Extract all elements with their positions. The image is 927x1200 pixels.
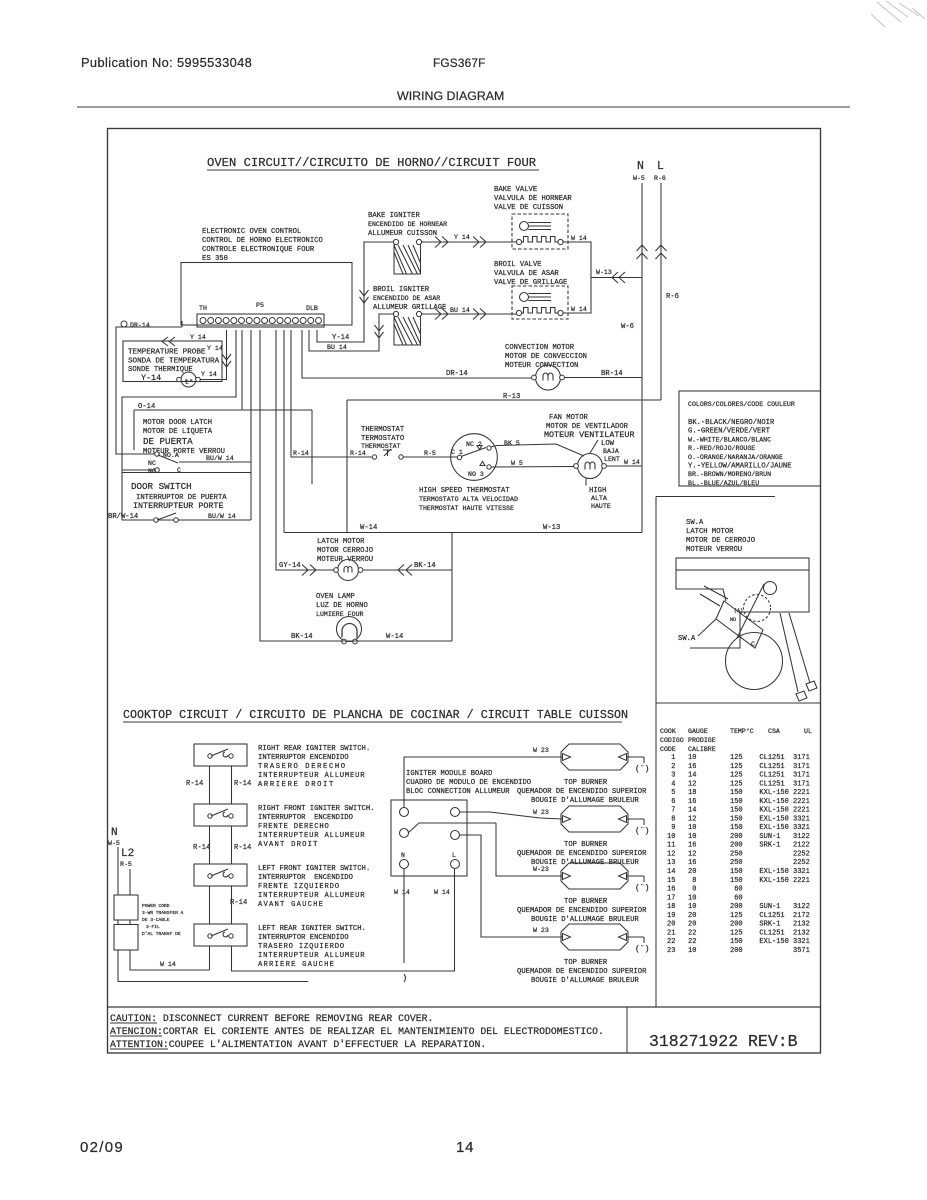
svg-text:W 14: W 14 (571, 306, 587, 313)
wire label O-14 (138, 403, 155, 411)
wire stub at connector left (181, 321, 183, 327)
wire label GY-14 (279, 562, 301, 570)
page header model number (433, 56, 486, 70)
door switch box right edge (250, 462, 252, 520)
cooktop wire table header (660, 727, 812, 753)
convection motor B1 (532, 365, 565, 390)
electronic oven control U1 body (181, 263, 352, 326)
svg-text:W 23: W 23 (533, 809, 549, 816)
svg-text:DR-14: DR-14 (446, 370, 468, 378)
bake valve label text (494, 186, 572, 212)
wire label W 14 module b (434, 889, 450, 896)
svg-text:18 10 200 SUN-1: 18 10 200 SUN-1 3122 (667, 903, 810, 911)
latch assembly cam follower top (737, 582, 777, 639)
electronic oven control U1 label text (202, 228, 323, 263)
svg-text:NC 2: NC 2 (466, 441, 482, 448)
svg-text:(¨): (¨) (635, 945, 649, 954)
svg-text:C 1: C 1 (451, 449, 463, 456)
wire label W 5 (511, 460, 523, 467)
svg-text:RIGHT FRONT IGNITER SWITCH.: RIGHT FRONT IGNITER SWITCH. (258, 805, 374, 813)
igniter module board label text (406, 770, 531, 796)
svg-text:R-5: R-5 (120, 861, 132, 868)
wire label W-13 bottom right (543, 524, 560, 532)
wire NO to fan motor (492, 466, 575, 469)
svg-text:21 22 125 CL1251: 21 22 125 CL1251 2132 (667, 929, 810, 937)
svg-text:P5: P5 (256, 302, 264, 309)
svg-text:ALLUMEUR GRILLAGE: ALLUMEUR GRILLAGE (373, 304, 446, 312)
svg-text:t°: t° (185, 378, 194, 387)
latch motor assembly enclosure left edge (655, 497, 657, 1008)
wire label BU 14 broil (450, 307, 470, 314)
wire N drop to power cord (117, 847, 119, 895)
bake valve L1 (512, 214, 568, 249)
svg-text:11 16 200 SRK-1: 11 16 200 SRK-1 2122 (667, 842, 810, 850)
svg-text:CAUTION: DISCONNECT CURRENT BE: CAUTION: DISCONNECT CURRENT BEFORE REMOV… (110, 1013, 433, 1024)
svg-text:BK.-BLACK/NEGRO/NOIR: BK.-BLACK/NEGRO/NOIR (688, 419, 775, 427)
svg-text:TEMPERATURE PROBE: TEMPERATURE PROBE (128, 349, 206, 357)
svg-text:ARRIERE GAUCHE: ARRIERE GAUCHE (258, 961, 335, 969)
svg-text:W 14: W 14 (571, 235, 587, 242)
wire module to top burner 4 (460, 835, 564, 937)
svg-text:BLOC CONNECTION ALLUMEUR: BLOC CONNECTION ALLUMEUR (406, 788, 510, 796)
svg-text:R-14: R-14 (193, 844, 210, 852)
svg-text:14: 14 (456, 1139, 474, 1156)
oven circuit section title (207, 156, 539, 170)
top burner 1 label W 23 (533, 747, 549, 754)
left rear igniter switch text (258, 925, 366, 969)
caution text spanish (110, 1026, 604, 1037)
svg-text:GAUGE: GAUGE (688, 728, 708, 735)
wire label R-13 (503, 393, 520, 401)
svg-text:6 16 150 KXL-150 2: 6 16 150 KXL-150 2221 (667, 798, 810, 806)
top burner 2 text (517, 841, 647, 867)
wire convection motor to N bus (565, 377, 643, 379)
top burner 1 (561, 744, 649, 774)
wire label R-14 a (293, 450, 309, 457)
wire switch column segment a (210, 766, 232, 804)
svg-text:23 10 200: 23 10 200 3571 (667, 947, 810, 955)
top burner 4 label W 23 (533, 927, 549, 934)
svg-text:W.-WHITE/BLANCO/BLANC: W.-WHITE/BLANCO/BLANC (688, 436, 771, 443)
svg-text:ATTENTION:COUPEE L'ALIMENTATIO: ATTENTION:COUPEE L'ALIMENTATION AVANT D'… (110, 1039, 486, 1050)
svg-text:W-14: W-14 (386, 633, 403, 641)
svg-text:VALVULA DE HORNEAR: VALVULA DE HORNEAR (494, 195, 572, 203)
svg-text:N: N (637, 160, 644, 173)
svg-text:318271922 REV:B: 318271922 REV:B (649, 1032, 798, 1051)
svg-text:MOTEUR VERROU: MOTEUR VERROU (686, 546, 742, 554)
svg-text:HIGH: HIGH (589, 487, 606, 495)
wire label BK-14 (414, 562, 436, 570)
svg-text:ARRIERE DROIT: ARRIERE DROIT (258, 781, 335, 789)
svg-text:BR.-BROWN/MORENO/BRUN: BR.-BROWN/MORENO/BRUN (688, 471, 771, 478)
svg-text:INTERRUPTOR ENCENDIDO: INTERRUPTOR ENCENDIDO (258, 814, 353, 822)
svg-text:17 10 60: 17 10 60 (667, 894, 743, 902)
svg-text:ELECTRONIC OVEN CONTROL: ELECTRONIC OVEN CONTROL (202, 228, 301, 236)
svg-text:THERMOSTAT HAUTE VITESSE: THERMOSTAT HAUTE VITESSE (419, 505, 514, 512)
svg-text:FRENTE IZQUIERDO: FRENTE IZQUIERDO (258, 883, 340, 891)
latch motor assembly enclosure bottom edge (656, 702, 821, 704)
svg-text:(¨): (¨) (635, 884, 649, 893)
latch assembly switch body rotated (716, 601, 763, 648)
wire pin to convection motor DR-14 (302, 330, 532, 378)
wire NC to fan motor low (491, 444, 584, 456)
svg-text:IGNITER MODULE BOARD: IGNITER MODULE BOARD (406, 770, 492, 778)
wire pin to broil igniter BU-14 (309, 314, 393, 351)
svg-text:Y-14: Y-14 (332, 334, 349, 342)
svg-text:W-13: W-13 (543, 524, 560, 532)
svg-text:ALLUMEUR CUISSON: ALLUMEUR CUISSON (368, 230, 437, 238)
latch motor label text (317, 538, 373, 564)
fan thermostat box top edge with L bus turn (347, 399, 661, 401)
wire label Y 14 near down line (207, 345, 223, 352)
svg-text:R-14: R-14 (230, 899, 247, 907)
latch assembly leg B (806, 681, 817, 691)
latch assembly SW.A leader (678, 586, 728, 643)
wire valves to N bus (591, 277, 642, 279)
svg-text:TEMP°C: TEMP°C (730, 727, 754, 735)
wire label R-6 on L bus (666, 293, 679, 301)
color legend entries (688, 419, 792, 487)
fan motor B2 (574, 454, 607, 479)
wire from latch switch common (179, 461, 251, 463)
connector chevrons on L bus (656, 245, 667, 259)
svg-text:MOTEUR VENTILATEUR: MOTEUR VENTILATEUR (544, 430, 634, 440)
svg-text:COOK: COOK (660, 728, 676, 735)
svg-text:N: N (401, 852, 405, 859)
svg-text:SW.A: SW.A (686, 519, 704, 527)
latch switch SW terminals (155, 452, 178, 473)
connector strip P5 on U1 (197, 314, 324, 327)
svg-text:L2: L2 (121, 848, 134, 860)
svg-text:5 18 150 KXL-150 2: 5 18 150 KXL-150 2221 (667, 789, 810, 797)
svg-text:BU 14: BU 14 (327, 344, 347, 351)
svg-text:LUMIERE FOUR: LUMIERE FOUR (316, 611, 364, 618)
power cord plug block upper (114, 895, 138, 920)
svg-text:POWER CORD: POWER CORD (142, 903, 170, 909)
svg-text:TRASERO IZQUIERDO: TRASERO IZQUIERDO (258, 943, 345, 951)
svg-text:INTERRUPTEUR PORTE: INTERRUPTEUR PORTE (133, 501, 223, 511)
svg-text:BL.-BLUE/AZUL/BLEU: BL.-BLUE/AZUL/BLEU (688, 480, 759, 487)
wire pin to thermostat R-14 (291, 330, 372, 457)
wire bake igniter to bake valve (422, 241, 517, 243)
node L supply label (654, 160, 666, 182)
svg-text:L: L (657, 160, 664, 173)
svg-text:W 23: W 23 (533, 747, 549, 754)
svg-text:MOTOR DOOR LATCH: MOTOR DOOR LATCH (143, 419, 212, 427)
power cord plug block lower (114, 925, 138, 951)
svg-text:TOP BURNER: TOP BURNER (564, 779, 608, 787)
right rear igniter switch S1 (194, 744, 247, 766)
wire L bus (660, 183, 662, 400)
motor door latch text (143, 419, 225, 456)
svg-text:LUZ DE HORNO: LUZ DE HORNO (316, 602, 368, 610)
part number revision block (649, 1032, 798, 1051)
top burner 2 (561, 806, 649, 836)
wire label W 14 broil valve (571, 306, 587, 313)
svg-text:CODIGO: CODIGO (660, 737, 684, 744)
svg-text:CALIBRE: CALIBRE (688, 746, 716, 753)
fan motor label text (544, 414, 634, 440)
wire label W 14 bake valve (571, 235, 587, 242)
high speed thermostat S2 body (451, 434, 498, 481)
svg-text:G.-GREEN/VERDE/VERT: G.-GREEN/VERDE/VERT (688, 428, 771, 436)
left front igniter switch text (258, 865, 370, 909)
svg-text:(¨): (¨) (635, 827, 649, 836)
header underline (77, 106, 850, 108)
svg-text:OVEN LAMP: OVEN LAMP (316, 593, 355, 601)
latch assembly mounting bar (676, 558, 809, 570)
svg-text:NO: NO (148, 468, 156, 475)
connector chevrons on probe box top edge (162, 337, 175, 346)
pin label DLB (306, 305, 318, 312)
svg-text:AVANT DROIT: AVANT DROIT (258, 841, 319, 849)
svg-text:ENCENDIDO DE HORNEAR: ENCENDIDO DE HORNEAR (368, 221, 447, 228)
latch motor assembly label text (686, 519, 755, 554)
wire label W 14 fan (624, 459, 640, 466)
wire label BU 14 (327, 344, 347, 351)
svg-text:INTERRUPTEUR ALLUMEUR: INTERRUPTEUR ALLUMEUR (258, 772, 365, 780)
footer date (80, 1139, 124, 1156)
svg-text:14 20 150 EXL-150: 14 20 150 EXL-150 3321 (667, 868, 810, 876)
wire pin to latch motor GY-14 (276, 330, 334, 570)
svg-text:W 14: W 14 (624, 459, 640, 466)
svg-text:BROIL VALVE: BROIL VALVE (494, 261, 541, 269)
wire label R-14 pair b (193, 844, 251, 852)
svg-text:CSA: CSA (768, 728, 780, 735)
wire label Y 14 above probe box (190, 334, 206, 341)
wire label R-14 pair a (186, 780, 251, 788)
wire label W-13 valves (596, 269, 612, 276)
wire label W-6 on N bus (621, 323, 634, 331)
svg-text:BK-14: BK-14 (291, 633, 313, 641)
svg-text:GY-14: GY-14 (279, 562, 301, 570)
temperature probe RT1 symbol (177, 372, 201, 387)
connector chevrons on broil igniter drop (375, 325, 384, 338)
wire label Y 14 bake (454, 234, 470, 241)
thermostat TS1 switch (372, 449, 403, 459)
svg-text:THERMOSTAT: THERMOSTAT (361, 443, 401, 450)
svg-text:3 14 125 CL1251 3: 3 14 125 CL1251 3171 (667, 772, 810, 780)
wire latch motor to right drop BK-14 (363, 569, 452, 571)
svg-text:R-14: R-14 (186, 780, 203, 788)
svg-text:Y.-YELLOW/AMARILLO/JAUNE: Y.-YELLOW/AMARILLO/JAUNE (688, 463, 792, 471)
pin label P5 (256, 302, 264, 309)
svg-text:AVANT GAUCHE: AVANT GAUCHE (258, 901, 324, 909)
top burner 4 (561, 924, 649, 954)
svg-text:ALTA: ALTA (591, 495, 607, 502)
wire switch column to feed line (209, 946, 211, 970)
svg-text:CONTROL DE HORNO ELECTRONICO: CONTROL DE HORNO ELECTRONICO (202, 237, 323, 245)
wire label W 14 module a (394, 889, 410, 896)
svg-text:12 12 250: 12 12 250 2252 (667, 851, 810, 859)
power cord connector stubs (118, 920, 130, 925)
svg-text:TOP BURNER: TOP BURNER (564, 959, 608, 967)
svg-text:BAKE VALVE: BAKE VALVE (494, 186, 537, 194)
wire pin drop to latch switch (250, 330, 252, 462)
wire pin to bake igniter Y-14 (317, 242, 393, 342)
svg-text:BROIL IGNITER: BROIL IGNITER (373, 286, 430, 294)
fan thermostat box left edge (346, 400, 348, 533)
svg-text:L: L (452, 852, 456, 859)
top burner 2 label W 23 (533, 809, 549, 816)
wire DR-14 to connector (116, 327, 182, 454)
svg-text:R-6: R-6 (654, 175, 666, 182)
svg-text:R-14: R-14 (350, 450, 366, 457)
svg-text:LATCH MOTOR: LATCH MOTOR (686, 528, 734, 536)
wire hop module N pin (404, 974, 406, 982)
svg-text:8 12 150 EXL-150 3: 8 12 150 EXL-150 3321 (667, 815, 810, 823)
color legend title (688, 401, 795, 408)
wire probe to pin Y-14 (200, 330, 227, 380)
wire L2 drop to power cord (129, 869, 131, 895)
svg-text:BU 14: BU 14 (450, 307, 470, 314)
svg-text:NO.A: NO.A (163, 452, 179, 459)
wire label R-5 (424, 450, 436, 457)
cooktop wire table rows (667, 754, 810, 955)
pin label TH (199, 305, 207, 312)
svg-text:SW.A: SW.A (678, 635, 696, 643)
svg-text:W 14: W 14 (394, 889, 410, 896)
svg-text:INTERRUPTEUR ALLUMEUR: INTERRUPTEUR ALLUMEUR (258, 952, 365, 960)
node L2 cooktop (120, 848, 134, 868)
svg-text:W-13: W-13 (596, 269, 612, 276)
wire module N pin drop (403, 869, 405, 964)
svg-text:2 16 125 CL1251 3: 2 16 125 CL1251 3171 (667, 763, 810, 771)
igniter module board A1 body (391, 800, 467, 876)
svg-text:WIRING DIAGRAM: WIRING DIAGRAM (397, 89, 504, 103)
latch assembly bracket profile left (676, 570, 726, 601)
svg-text:DOOR SWITCH: DOOR SWITCH (131, 481, 192, 492)
wire label DR-14 left (446, 370, 468, 378)
svg-text:OVEN CIRCUIT//CIRCUITO DE HORN: OVEN CIRCUIT//CIRCUITO DE HORNO//CIRCUIT… (207, 156, 536, 170)
svg-text:W-6: W-6 (621, 323, 634, 331)
wire pin drop to latch box (241, 330, 243, 410)
svg-text:BK 5: BK 5 (504, 440, 520, 447)
door switch box (122, 473, 251, 521)
oven lamp label text (316, 593, 368, 618)
wire N bus (641, 183, 643, 533)
svg-text:COOKTOP CIRCUIT / CIRCUITO DE: COOKTOP CIRCUIT / CIRCUITO DE PLANCHA DE… (123, 708, 628, 722)
wire label BU/W 14 (206, 455, 234, 462)
latch assembly switch labels (730, 608, 755, 648)
igniter module pin labels N L (401, 852, 456, 859)
caution text english (110, 1013, 433, 1024)
svg-text:NO: NO (730, 617, 736, 623)
node DR-14 stub (121, 321, 150, 329)
connector chevrons on N bus (637, 245, 648, 259)
wire thermostat to high speed thermostat (403, 456, 457, 458)
svg-text:QUEMADOR DE ENCENDIDO SUPERIOR: QUEMADOR DE ENCENDIDO SUPERIOR (517, 907, 647, 915)
connector chevrons on valve N wire (612, 272, 625, 283)
svg-text:TERMOSTATO ALTA VELOCIDAD: TERMOSTATO ALTA VELOCIDAD (419, 496, 518, 503)
cooktop circuit section title (123, 708, 628, 722)
svg-text:FGS367F: FGS367F (433, 56, 486, 70)
svg-text:DR-14: DR-14 (130, 322, 150, 329)
wire label BR/W-14 (108, 513, 138, 521)
wire module to top burner 2 (460, 812, 564, 819)
node N cooktop (108, 827, 120, 847)
bake igniter E1 (393, 239, 421, 274)
connector chevrons on Y-14 drop (222, 354, 231, 367)
svg-text:(A): (A) (734, 608, 743, 614)
svg-text:DE 3-CABLE: DE 3-CABLE (142, 917, 170, 923)
wire label BK 5 (504, 440, 520, 447)
svg-text:D'AL TRANSF DE: D'AL TRANSF DE (142, 931, 181, 937)
caution box top edge (108, 1006, 821, 1008)
wire latch lamp right drop (451, 533, 453, 642)
svg-text:QUEMADOR DE ENCENDIDO SUPERIOR: QUEMADOR DE ENCENDIDO SUPERIOR (517, 968, 647, 976)
svg-text:R-5: R-5 (424, 450, 436, 457)
svg-text:W 5: W 5 (511, 460, 523, 467)
wire fan motor to N bus (607, 465, 643, 467)
svg-text:INTERRUPTEUR ALLUMEUR: INTERRUPTEUR ALLUMEUR (258, 832, 365, 840)
svg-text:W-23: W-23 (533, 866, 549, 873)
svg-text:W 14: W 14 (160, 961, 176, 968)
svg-text:Y 14: Y 14 (190, 334, 206, 341)
svg-text:CONVECTION MOTOR: CONVECTION MOTOR (505, 344, 575, 352)
wire switch column segment c (210, 886, 232, 924)
wire label Y-14 (332, 334, 349, 342)
svg-text:W-5: W-5 (633, 175, 645, 182)
svg-text:BU/W 14: BU/W 14 (206, 455, 234, 462)
svg-text:INTERRUPTEUR ALLUMEUR: INTERRUPTEUR ALLUMEUR (258, 892, 365, 900)
wire label BU/W 14 lower (208, 513, 236, 520)
svg-text:20 20 200 SRK-1: 20 20 200 SRK-1 2132 (667, 921, 810, 929)
svg-text:O.-ORANGE/NARANJA/ORANGE: O.-ORANGE/NARANJA/ORANGE (688, 454, 783, 461)
temperature probe box (123, 341, 222, 382)
igniter module board pins (400, 808, 460, 869)
right front igniter switch text (258, 805, 374, 849)
svg-text:13 16 250: 13 16 250 2252 (667, 859, 810, 867)
svg-text:BU/W 14: BU/W 14 (208, 513, 236, 520)
wire power cord N to module board (118, 951, 308, 982)
svg-text:R-14: R-14 (234, 844, 251, 852)
wire label Y 14 right of probe (201, 371, 217, 378)
svg-text:W 14: W 14 (434, 889, 450, 896)
right front igniter switch S2 (194, 804, 247, 826)
fan motor speed bracket HIGH (586, 479, 611, 511)
wire label BK-14 lamp (291, 633, 313, 641)
temperature probe text (128, 349, 220, 384)
svg-text:HAUTE: HAUTE (591, 503, 611, 510)
color legend box (679, 391, 821, 486)
svg-text:ENCENDIDO DE ASAR: ENCENDIDO DE ASAR (373, 295, 440, 302)
wire label R-14 c (230, 899, 247, 907)
svg-text:QUEMADOR DE ENCENDIDO SUPERIOR: QUEMADOR DE ENCENDIDO SUPERIOR (517, 850, 647, 858)
svg-text:RIGHT REAR IGNITER SWITCH.: RIGHT REAR IGNITER SWITCH. (258, 745, 370, 753)
page header publication number (81, 55, 252, 70)
wire broil igniter to broil valve (422, 313, 517, 315)
left front igniter switch S3 (194, 864, 247, 886)
svg-text:9 10 150 EXL-150 3: 9 10 150 EXL-150 3321 (667, 824, 810, 832)
svg-text:BOUGIE D'ALLUMAGE BRULEUR: BOUGIE D'ALLUMAGE BRULEUR (531, 797, 640, 805)
wire pin to O-14 run (122, 330, 236, 520)
broil igniter E2 (393, 311, 421, 345)
latch motor assembly enclosure top edge (656, 496, 775, 498)
svg-text:1 10 125 CL1251 3: 1 10 125 CL1251 3171 (667, 754, 810, 762)
broil igniter label text (373, 286, 446, 312)
svg-text:FAN MOTOR: FAN MOTOR (549, 414, 589, 422)
svg-text:LEFT REAR IGNITER SWITCH.: LEFT REAR IGNITER SWITCH. (258, 925, 366, 933)
motor door latch box (134, 410, 312, 484)
svg-text:DE PUERTA: DE PUERTA (143, 436, 193, 447)
connector chevrons on BK-14 wire (398, 565, 412, 576)
svg-text:Y 14: Y 14 (207, 345, 223, 352)
svg-text:LENT: LENT (604, 456, 620, 463)
high speed thermostat label text (419, 487, 518, 512)
svg-text:INTERRUPTOR ENCENDIDO: INTERRUPTOR ENCENDIDO (258, 754, 349, 762)
fan thermostat box bottom edge (284, 532, 642, 534)
